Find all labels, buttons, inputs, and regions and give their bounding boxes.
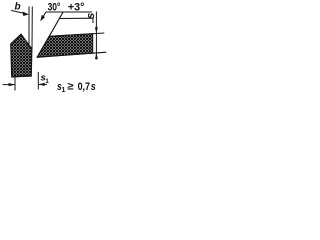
svg-text:1: 1 <box>62 87 66 94</box>
svg-text:0,7: 0,7 <box>78 81 90 93</box>
svg-text:≥: ≥ <box>67 81 73 93</box>
top surface line of upper outline <box>60 17 93 19</box>
s1 extension line right <box>37 72 39 90</box>
extension line right of gap b <box>31 7 33 50</box>
left plate (vertical, cross-hatched, peaked top) <box>11 34 32 77</box>
note s1 >= 0,7s <box>57 81 96 95</box>
s1 dimension line left part with arrow <box>3 83 16 86</box>
top edge extension line (for s) <box>51 33 105 36</box>
svg-text:s: s <box>91 81 96 93</box>
svg-text:b: b <box>15 2 21 13</box>
extension line left of gap b <box>28 7 30 47</box>
leader from shelf to groove with arrow <box>40 12 46 21</box>
bevel line 30 deg (extends above band to shelf) <box>37 12 63 58</box>
dimension b leader with arrow <box>11 10 29 16</box>
right end tick of top surface <box>92 18 94 23</box>
svg-text:s: s <box>85 13 97 19</box>
s1 extension line left <box>14 77 16 90</box>
bottom edge extension line (for s) <box>37 52 106 57</box>
svg-text:1: 1 <box>45 78 49 85</box>
label shelf line <box>46 11 92 13</box>
s1 dimension line right part with arrow <box>38 83 47 86</box>
right plate (horizontal band, cross-hatched, beveled left end) <box>37 34 92 58</box>
dimension s vertical line with outside arrows <box>95 12 98 60</box>
